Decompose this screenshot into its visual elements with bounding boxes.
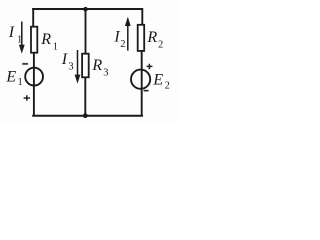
svg-text:I: I bbox=[8, 24, 15, 41]
svg-text:R: R bbox=[146, 29, 157, 46]
wire top horizontal bbox=[32, 8, 143, 10]
label I3 bbox=[61, 51, 74, 73]
wire middle branch lower bbox=[84, 77, 86, 116]
current arrow I3 bbox=[75, 50, 81, 84]
resistor R1 bbox=[31, 27, 37, 53]
current arrow I2 (up) bbox=[125, 17, 131, 51]
svg-text:1: 1 bbox=[18, 77, 23, 88]
polarity minus of E1 bbox=[22, 63, 28, 65]
wire bottom horizontal bbox=[32, 115, 143, 117]
svg-text:1: 1 bbox=[53, 42, 58, 53]
resistor R2 bbox=[138, 25, 145, 51]
svg-text:R: R bbox=[91, 57, 102, 74]
label I1 bbox=[8, 24, 22, 46]
node top junction bbox=[83, 7, 88, 12]
source E1 bbox=[25, 68, 43, 86]
current arrow I1 bbox=[19, 22, 25, 54]
source E2 bbox=[131, 70, 150, 89]
label I2 bbox=[113, 29, 125, 50]
wire middle branch upper bbox=[85, 8, 87, 54]
wire right branch lower (through E2) bbox=[141, 51, 143, 116]
label R3 bbox=[91, 57, 108, 79]
polarity minus of E2 bbox=[144, 90, 149, 92]
wire left branch lower (through E1) bbox=[33, 53, 35, 116]
polarity plus of E2 bbox=[147, 64, 153, 69]
wire left branch upper bbox=[32, 8, 34, 27]
svg-text:E: E bbox=[5, 69, 16, 86]
svg-text:2: 2 bbox=[120, 39, 125, 50]
svg-text:2: 2 bbox=[158, 40, 163, 51]
label R2 bbox=[146, 29, 163, 50]
resistor R3 bbox=[82, 54, 89, 78]
svg-text:I: I bbox=[61, 51, 68, 68]
svg-text:E: E bbox=[152, 72, 163, 89]
svg-text:R: R bbox=[40, 31, 51, 48]
svg-text:1: 1 bbox=[17, 35, 22, 46]
label E2 bbox=[152, 72, 169, 92]
node bottom junction bbox=[83, 113, 88, 118]
svg-text:3: 3 bbox=[68, 61, 73, 72]
label R1 bbox=[40, 31, 58, 53]
polarity plus of E1 bbox=[24, 95, 30, 101]
svg-text:2: 2 bbox=[165, 80, 170, 91]
wire right branch upper bbox=[141, 8, 143, 25]
svg-text:3: 3 bbox=[103, 68, 108, 79]
label E1 bbox=[5, 69, 22, 89]
